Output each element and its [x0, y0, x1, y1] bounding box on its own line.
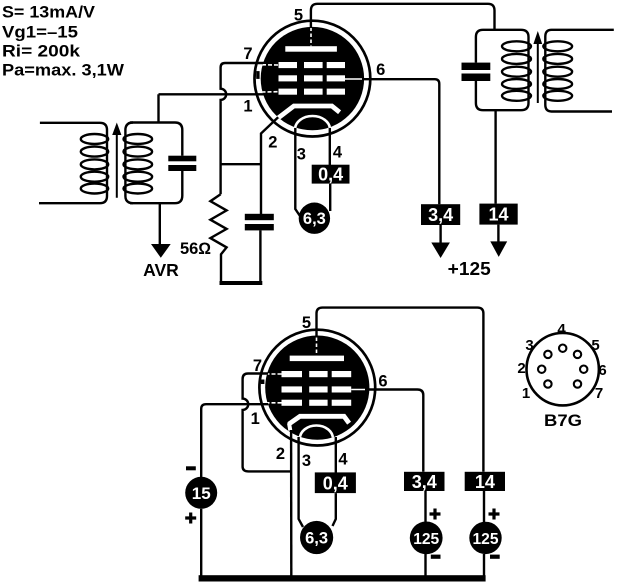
- svg-text:2: 2: [276, 445, 285, 463]
- tube V1 grid g2 dashes: [279, 75, 346, 81]
- meter 6,3 (top): [299, 203, 330, 234]
- wire pin6 to 3,4 box: [362, 79, 439, 204]
- current label box 3,4: [421, 204, 460, 225]
- wire 0,4 box to meter: [329, 184, 331, 211]
- svg-text:4: 4: [333, 144, 343, 162]
- svg-text:7: 7: [253, 357, 262, 375]
- tube V2 envelope: [259, 330, 375, 446]
- label plus (125 left): [430, 509, 441, 520]
- tube V2 grid g2 dashes: [282, 386, 352, 392]
- label minus (125 right): [490, 555, 500, 559]
- transformer T1 primary coil: [39, 123, 108, 203]
- arrow +125 right: [497, 225, 499, 244]
- tube V2 anode lead (white dash): [316, 338, 318, 356]
- capacitor C2: [245, 214, 274, 231]
- svg-text:1: 1: [251, 410, 260, 428]
- wire pin2 to cap C2: [261, 116, 280, 215]
- tube V1 anode lead (white dash): [310, 28, 312, 47]
- tube V1 pin7 lead white: [262, 64, 279, 66]
- B7G pin 1: [544, 380, 551, 387]
- label minus (15): [186, 466, 196, 470]
- tube V2 pin1 lead white: [266, 402, 282, 404]
- wire 15 battery to bus: [200, 509, 202, 578]
- svg-text:6,3: 6,3: [305, 530, 328, 548]
- wire pin4 to 0,4 box: [329, 128, 331, 166]
- svg-text:14: 14: [475, 472, 495, 492]
- wire R/C bottom bar: [220, 281, 263, 285]
- svg-text:7: 7: [243, 45, 252, 63]
- node line R/C top: [220, 163, 262, 165]
- capacitor C3: [462, 63, 491, 81]
- svg-text:4: 4: [557, 321, 566, 338]
- ground bus bar: [199, 575, 486, 581]
- svg-text:+125: +125: [448, 259, 491, 279]
- svg-text:Vg1=–15: Vg1=–15: [2, 24, 78, 42]
- svg-text:B7G: B7G: [544, 412, 582, 430]
- svg-text:3,4: 3,4: [412, 472, 437, 492]
- wire 125 left to bus: [424, 554, 426, 578]
- svg-text:1: 1: [243, 98, 252, 116]
- B7G base outline: [527, 333, 599, 405]
- svg-text:6: 6: [378, 373, 387, 391]
- transformer T2 box with capacitor C3: [476, 30, 529, 110]
- tube V1 inner disk: [261, 27, 364, 130]
- tube V2 anode bar: [290, 356, 344, 362]
- tube V1 pin1 lead white: [262, 91, 279, 93]
- battery 15: [185, 477, 217, 509]
- wire pin5 (V2) to 14 box: [317, 308, 484, 472]
- current label box 14: [479, 204, 517, 225]
- wire T2 bottom to 14 box: [494, 110, 496, 203]
- current label box 0,4 (bottom): [315, 472, 356, 493]
- wire pin1 (V2) to 15 battery: [201, 404, 268, 477]
- svg-text:Ri= 200k: Ri= 200k: [2, 43, 81, 61]
- meter 6,3 (bottom): [300, 521, 333, 554]
- tube V1 grid g1 dashes: [279, 89, 346, 95]
- tube V1 cathode: [278, 106, 340, 119]
- svg-text:Pa=max. 3,1W: Pa=max. 3,1W: [2, 62, 124, 80]
- transformer T1 secondary coil (tuned circuit box left edge): [124, 123, 153, 204]
- pentode V2 (bottom tube): [259, 330, 375, 452]
- resistor R1 56 ohm: [210, 194, 226, 281]
- transformer T2 coupling arrow: [533, 31, 542, 103]
- svg-text:15: 15: [192, 484, 211, 503]
- tube V2 pin6 lead white: [351, 389, 367, 391]
- current label box 3,4 (bottom): [404, 472, 445, 491]
- svg-text:3: 3: [302, 452, 311, 470]
- svg-text:3,4: 3,4: [428, 205, 453, 225]
- label plus (15): [185, 513, 196, 524]
- B7G pin 2: [538, 366, 545, 373]
- current label box 0,4: [312, 165, 350, 184]
- svg-text:5: 5: [591, 337, 599, 354]
- svg-text:6: 6: [376, 61, 385, 79]
- svg-text:5: 5: [302, 314, 311, 332]
- tube V1 anode bar: [285, 46, 337, 52]
- svg-text:S= 13mA/V: S= 13mA/V: [2, 4, 95, 22]
- B7G pin 7: [574, 380, 581, 387]
- svg-text:AVR: AVR: [143, 260, 179, 280]
- wire pin2 (V2) to bus: [290, 430, 293, 578]
- svg-text:4: 4: [338, 451, 348, 469]
- wire 0,4 box to 6,3 meter: [333, 493, 336, 526]
- B7G pin 6: [580, 366, 587, 373]
- wire AVR drop: [159, 203, 161, 245]
- B7G pin 3: [544, 351, 551, 358]
- svg-text:1: 1: [522, 385, 530, 402]
- tube V2 pin7 lead white: [266, 373, 282, 375]
- B7G pin 5: [574, 351, 581, 358]
- svg-text:3: 3: [297, 146, 306, 164]
- wire C2 bottom: [259, 230, 261, 283]
- tube V1 ring mark: [256, 71, 259, 79]
- tube V1 grid g3 dashes: [279, 62, 346, 68]
- tube V2 grid g1 dashes: [282, 400, 352, 406]
- tube V2 pin2 lead white: [289, 423, 290, 431]
- svg-text:125: 125: [473, 531, 499, 548]
- svg-text:0,4: 0,4: [323, 473, 348, 493]
- wire pin1 horizontal: [159, 93, 266, 95]
- wire 125 right to bus: [483, 554, 485, 578]
- wire pin7 (V2) down with hop: [243, 374, 292, 472]
- tube V2 cathode: [289, 416, 349, 424]
- label plus (125 right): [489, 509, 500, 520]
- wire pin1 drop to tuned circuit: [157, 94, 159, 122]
- tube V1 envelope: [255, 21, 371, 137]
- wire pin7 vertical with hop over pin1 wire: [221, 63, 265, 194]
- B7G pin 4: [559, 345, 566, 352]
- wire pin4 (V2) to 0,4 box: [335, 437, 337, 473]
- tube V2 inner disk: [265, 336, 369, 440]
- svg-text:6,3: 6,3: [303, 210, 326, 228]
- wire pin6 (V2) to 3,4 box: [365, 390, 423, 472]
- transformer T2 primary coil: [502, 41, 531, 101]
- transformer T2 secondary coil: [543, 30, 614, 112]
- wire pin5 anode to T2: [311, 4, 495, 30]
- svg-text:2: 2: [268, 134, 277, 152]
- svg-text:0,4: 0,4: [318, 165, 343, 185]
- wire pin3 to 6,3 meter: [295, 128, 300, 216]
- wire 3,4 box to 125 meter: [424, 491, 426, 522]
- tube V1 pin6 lead white: [345, 78, 364, 80]
- tube V1 filament dome: [295, 116, 330, 143]
- meter 125 (left): [410, 522, 443, 555]
- tube V2 grid g3 dashes: [282, 371, 352, 377]
- svg-text:5: 5: [294, 7, 303, 25]
- svg-text:6: 6: [598, 362, 606, 379]
- tuned circuit box top and bottom edges: [130, 123, 182, 204]
- svg-text:3: 3: [525, 337, 533, 354]
- current label box 14 (bottom): [465, 472, 505, 491]
- tube V2 filament dome: [300, 426, 333, 452]
- wire pin3 (V2) to 6,3 meter: [299, 437, 303, 527]
- svg-text:56Ω: 56Ω: [180, 240, 211, 258]
- svg-text:2: 2: [517, 360, 525, 377]
- label minus (125 left): [431, 555, 441, 559]
- transformer T1 coupling arrow: [112, 123, 121, 198]
- svg-text:7: 7: [595, 385, 603, 402]
- capacitor C1 (in tuned circuit): [168, 156, 196, 171]
- wire 14 box to 125 meter: [483, 491, 485, 522]
- tube V2 ring mark: [261, 380, 265, 385]
- arrow +125 left: [439, 225, 441, 245]
- svg-text:125: 125: [413, 531, 439, 548]
- pentode V1 (top tube): [255, 21, 371, 143]
- meter 125 (right): [469, 522, 501, 554]
- svg-text:14: 14: [488, 205, 508, 225]
- AVR arrow: [151, 244, 171, 258]
